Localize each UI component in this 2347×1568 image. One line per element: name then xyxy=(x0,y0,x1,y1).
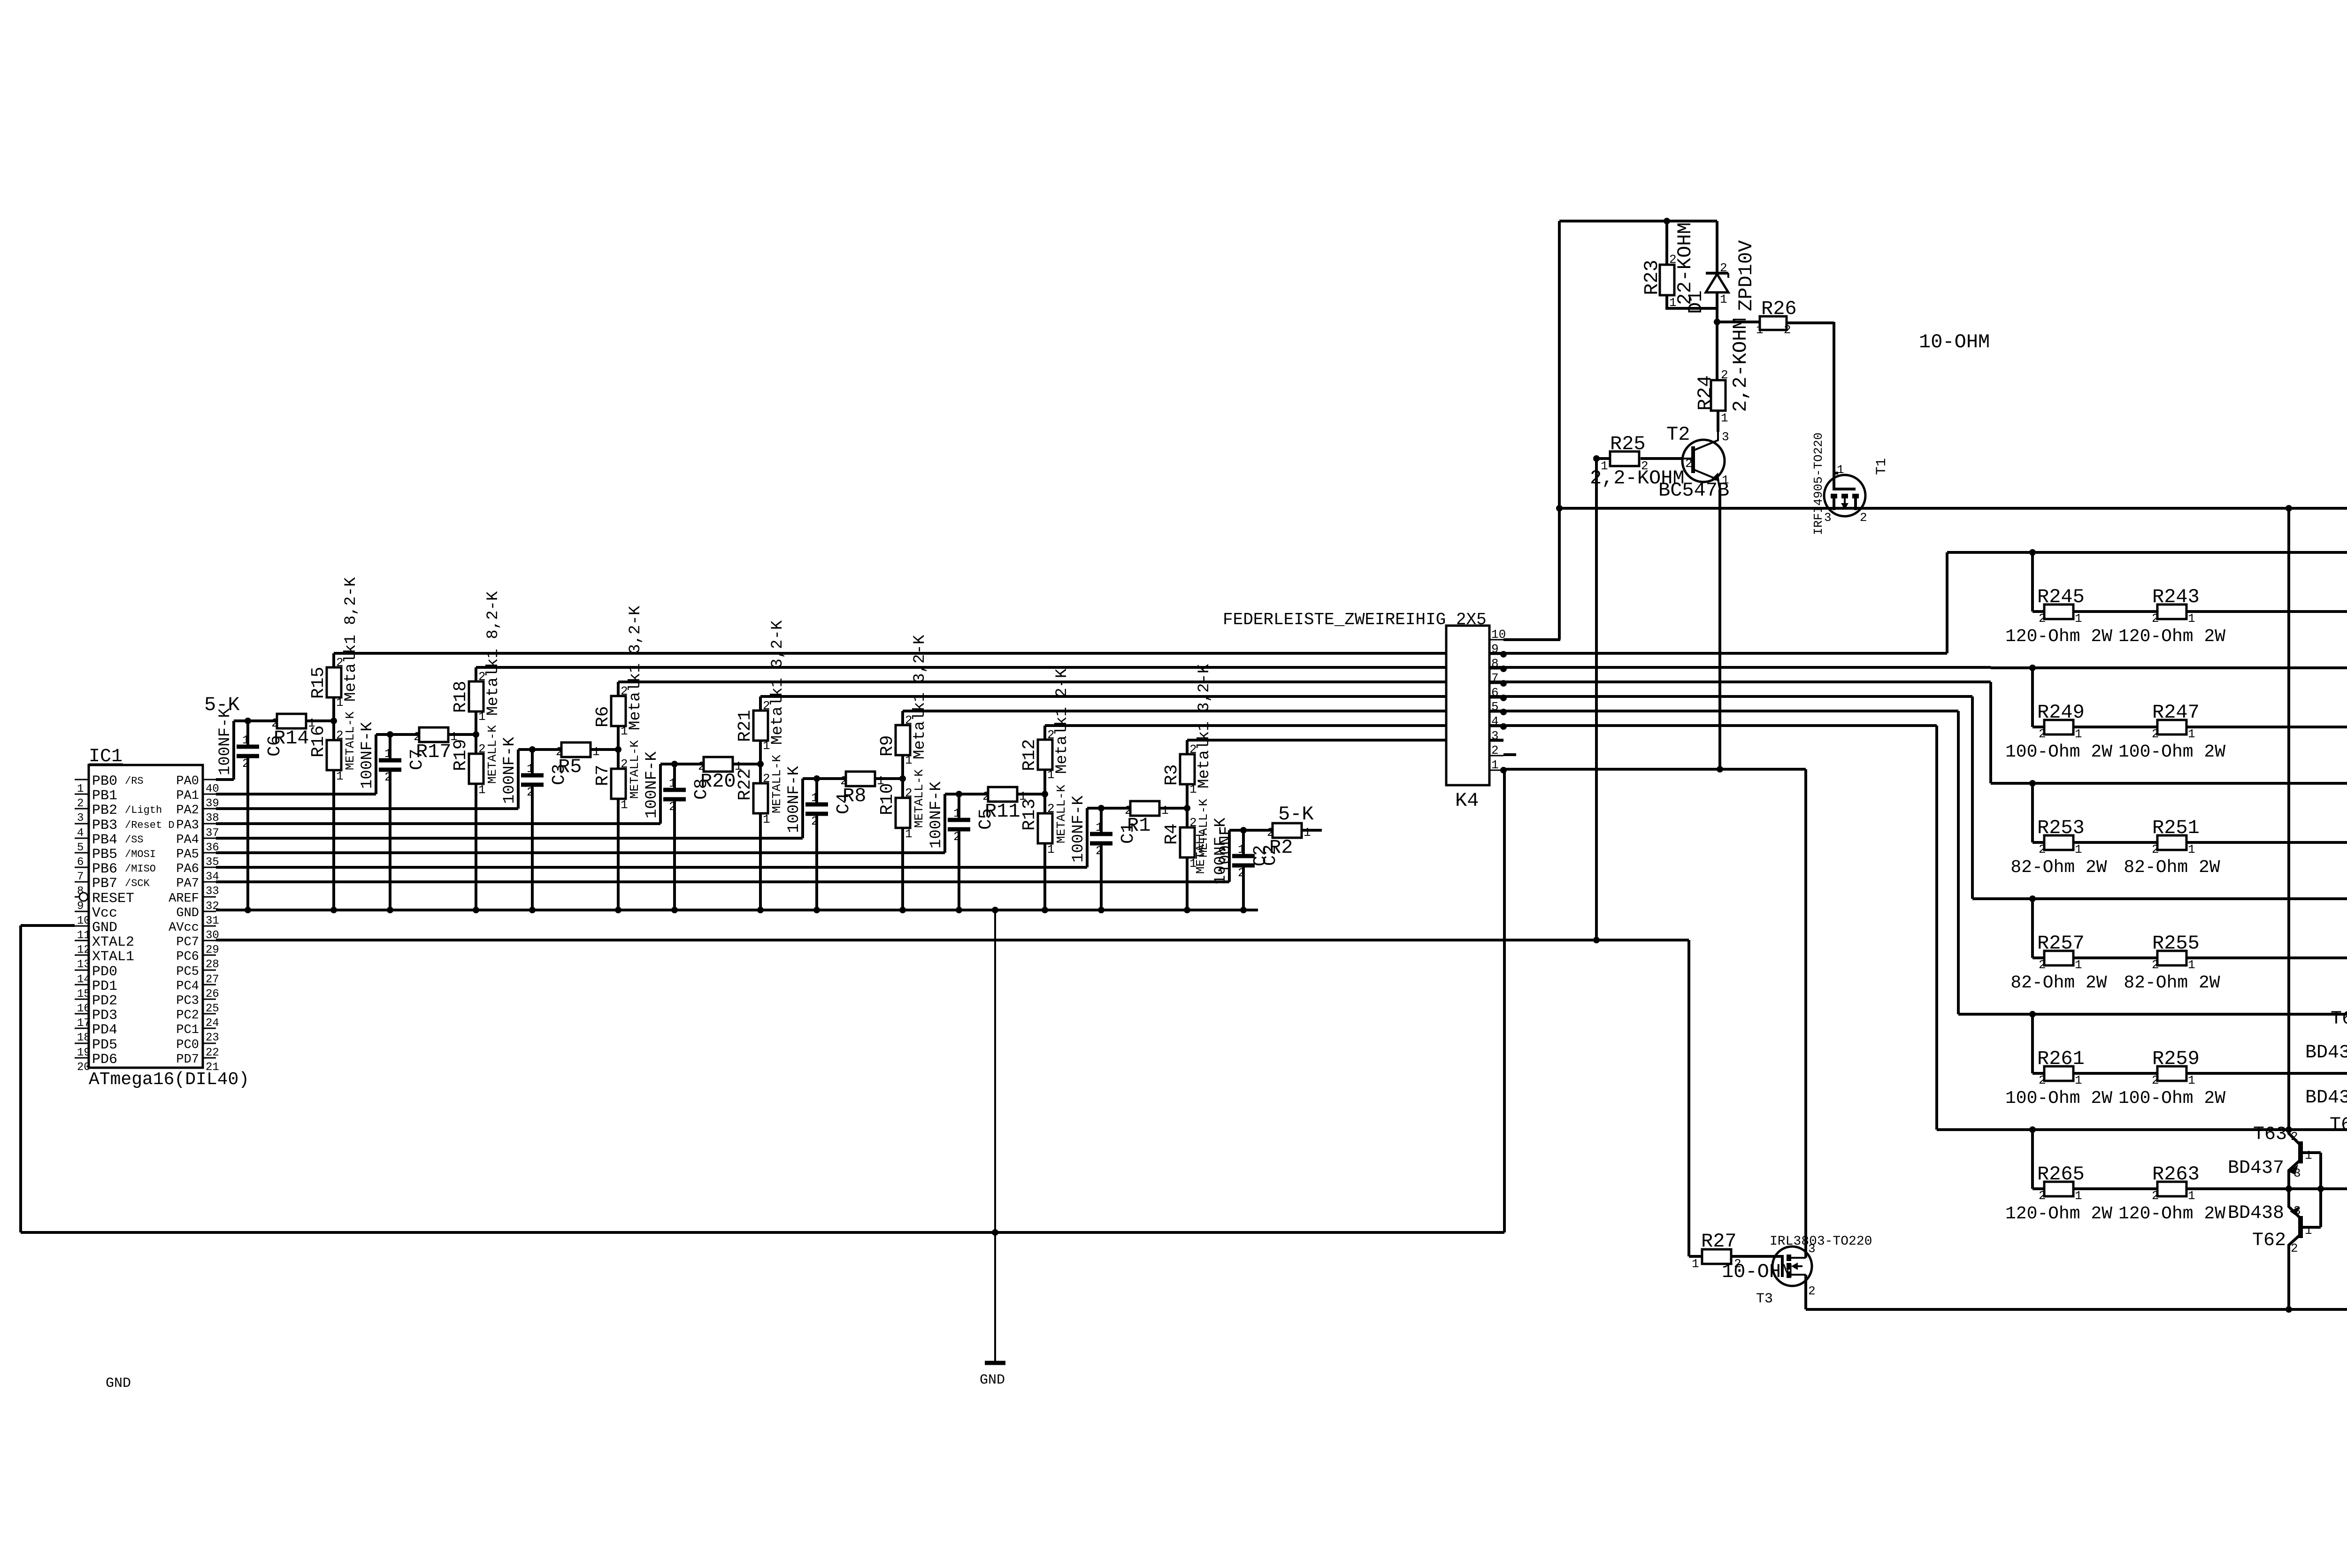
capacitor C2 xyxy=(1240,827,1247,834)
svg-text:Metalk1 3,2-K: Metalk1 3,2-K xyxy=(1196,664,1213,788)
wire K4 pin4 jog down to channel6 feedback xyxy=(1503,724,1937,727)
K4 pin 1 xyxy=(1489,770,1503,771)
svg-text:2: 2 xyxy=(2291,1241,2298,1255)
svg-text:R2: R2 xyxy=(1269,836,1293,859)
IC1 pin 18 PD4 xyxy=(75,1028,89,1029)
svg-text:100-Ohm 2W: 100-Ohm 2W xyxy=(2118,742,2225,762)
svg-text:2: 2 xyxy=(1096,844,1103,858)
bus wire stage 5 to K4 pin 4 xyxy=(1045,724,1503,727)
svg-text:13: 13 xyxy=(77,958,91,971)
svg-text:2: 2 xyxy=(2152,1073,2159,1087)
svg-text:100NF-K: 100NF-K xyxy=(359,722,376,789)
svg-text:1: 1 xyxy=(2305,1148,2312,1163)
svg-text:1: 1 xyxy=(1692,1257,1699,1271)
svg-text:2: 2 xyxy=(1189,816,1197,830)
capacitor C4 xyxy=(813,775,820,782)
IC1 pin 4 PB3 xyxy=(75,823,89,825)
IC1 pin 5 PB4 xyxy=(75,838,89,839)
svg-text:R5: R5 xyxy=(558,756,582,778)
svg-text:ATmega16(DIL40): ATmega16(DIL40) xyxy=(89,1070,249,1090)
svg-text:PD3: PD3 xyxy=(92,1008,117,1024)
svg-text:PC0: PC0 xyxy=(176,1038,199,1052)
output line channel 3 xyxy=(2033,841,2347,844)
svg-text:/Ligth: /Ligth xyxy=(125,804,162,816)
wire fb corner to power resistors channel 4 xyxy=(2031,899,2034,958)
svg-text:PA3: PA3 xyxy=(176,818,199,833)
svg-text:Metalk1 2-K: Metalk1 2-K xyxy=(1053,668,1071,774)
IC1 pin 15 PD1 xyxy=(75,984,89,986)
resistor R13 (lower) xyxy=(1043,794,1046,813)
svg-text:1: 1 xyxy=(2305,1224,2312,1238)
IC1 pin 12 XTAL2 xyxy=(75,940,89,941)
svg-text:2: 2 xyxy=(811,814,819,828)
svg-text:100-Ohm 2W: 100-Ohm 2W xyxy=(2005,742,2112,762)
svg-text:1: 1 xyxy=(2188,842,2195,857)
capacitor C8 xyxy=(671,761,678,767)
IC1 pin 10 Vcc xyxy=(75,911,89,912)
wire stage 6 junction xyxy=(1159,807,1187,810)
svg-text:PB2: PB2 xyxy=(92,803,117,818)
svg-text:R263: R263 xyxy=(2152,1163,2200,1186)
resistor R259 100-Ohm 2W xyxy=(2157,1066,2186,1081)
svg-text:2: 2 xyxy=(2152,958,2159,972)
wire column for channel 6 from bus down to pair T63 xyxy=(2287,508,2290,1130)
wire T2 supply rail top xyxy=(1559,220,1717,222)
wire K4 pin1 to GND trunk xyxy=(1503,769,1506,1232)
wire K4 pin1 GND line xyxy=(1503,768,1806,771)
IC1 pin 14 PD0 xyxy=(75,970,89,971)
capacitor C3 xyxy=(529,746,536,753)
IC1 pin 39 PA1 xyxy=(203,794,216,795)
IC1 pin 24 PC2 xyxy=(203,1013,216,1015)
wire PA3 from IC1 to stage 3 xyxy=(216,822,660,825)
svg-text:IRL3803-TO220: IRL3803-TO220 xyxy=(1770,1234,1872,1249)
wire left rail down to K4 pin10 xyxy=(1558,221,1561,640)
wire K4 pin9 jog up to channel1 feedback line xyxy=(1503,652,1947,655)
svg-text:1: 1 xyxy=(1721,411,1728,425)
svg-text:1: 1 xyxy=(336,769,344,783)
svg-text:5-K: 5-K xyxy=(204,694,240,716)
svg-text:Metalk1 8,2-K: Metalk1 8,2-K xyxy=(484,591,502,716)
capacitor C6 xyxy=(245,718,251,724)
svg-text:82-Ohm 2W: 82-Ohm 2W xyxy=(2010,857,2107,878)
wire PA5 from IC1 to stage 5 xyxy=(216,851,945,854)
svg-text:BD438: BD438 xyxy=(2228,1203,2284,1224)
svg-text:100-Ohm 2W: 100-Ohm 2W xyxy=(2005,1088,2112,1109)
resistor R5 xyxy=(561,742,591,757)
IC1 pin 31 GND xyxy=(203,911,216,912)
svg-text:METALL-K: METALL-K xyxy=(770,755,784,813)
resistor R7 (lower) xyxy=(617,750,620,769)
svg-text:/MISO: /MISO xyxy=(125,863,156,875)
svg-text:R16: R16 xyxy=(308,726,329,757)
svg-text:2: 2 xyxy=(905,786,913,800)
svg-text:T2: T2 xyxy=(1666,423,1690,446)
resistor R21 (upper) xyxy=(759,741,762,764)
resistor R257 82-Ohm 2W xyxy=(2044,951,2073,965)
svg-text:1: 1 xyxy=(2075,727,2082,741)
IC1 pin 34 PA6 xyxy=(203,867,216,868)
svg-text:Vcc: Vcc xyxy=(92,905,117,921)
wire PA1 from IC1 to stage 1 xyxy=(216,793,376,795)
svg-text:RESET: RESET xyxy=(92,891,134,907)
resistor R255 82-Ohm 2W xyxy=(2157,951,2186,965)
svg-text:2: 2 xyxy=(1721,368,1728,382)
svg-text:PC5: PC5 xyxy=(176,965,199,979)
svg-text:82-Ohm 2W: 82-Ohm 2W xyxy=(2124,857,2220,878)
IC1 pin 23 PC1 xyxy=(203,1028,216,1029)
svg-text:AREF: AREF xyxy=(169,892,199,906)
svg-text:3: 3 xyxy=(2293,1204,2301,1218)
svg-text:2: 2 xyxy=(1808,1284,1816,1298)
wire node stage 1 xyxy=(376,733,419,736)
IC1 pin 28 PC6 xyxy=(203,955,216,956)
wire fb corner to power resistors channel 2 xyxy=(2031,668,2034,727)
feedback line channel 3 xyxy=(1991,782,2347,785)
svg-text:BD437: BD437 xyxy=(2305,1042,2347,1063)
K4 pin 7 xyxy=(1489,683,1503,684)
svg-text:R243: R243 xyxy=(2152,586,2200,608)
wire PC7 jog down to R27 xyxy=(1687,940,1690,1256)
svg-text:2: 2 xyxy=(2152,612,2159,626)
IC1 pin 29 PC7 xyxy=(203,940,216,941)
svg-text:1: 1 xyxy=(2188,1189,2195,1203)
bus wire stage 2 to K4 pin 7 xyxy=(618,681,1503,683)
svg-text:21: 21 xyxy=(206,1061,219,1074)
svg-text:2: 2 xyxy=(336,728,344,742)
transistor T1 IRFI4905-T0220 p-channel MOSFET xyxy=(1824,475,1865,516)
resistor R15 (upper) xyxy=(332,697,335,721)
svg-text:R247: R247 xyxy=(2152,701,2200,724)
svg-text:2: 2 xyxy=(669,800,676,814)
IC1 pin 37 PA3 xyxy=(203,823,216,825)
svg-text:PD1: PD1 xyxy=(92,979,117,994)
svg-text:2,2-KOHM: 2,2-KOHM xyxy=(1729,317,1752,412)
svg-text:3: 3 xyxy=(77,812,84,825)
IC1 pin 21 PD7 xyxy=(203,1057,216,1059)
svg-text:PD4: PD4 xyxy=(92,1022,117,1038)
transistor T2 BC547B xyxy=(1682,440,1725,482)
resistor R263 120-Ohm 2W xyxy=(2157,1182,2186,1196)
resistor R261 100-Ohm 2W xyxy=(2044,1066,2073,1081)
svg-text:Metalk1 3,2-K: Metalk1 3,2-K xyxy=(769,620,787,745)
resistor R2 xyxy=(1273,823,1302,838)
svg-text:28: 28 xyxy=(206,958,219,971)
svg-text:Metalk1 3,2-K: Metalk1 3,2-K xyxy=(627,605,644,730)
K4 pin 9 xyxy=(1489,654,1503,655)
wire T3 drain up to K4 pin1 line xyxy=(1804,769,1807,1258)
svg-text:METALL-K: METALL-K xyxy=(628,740,642,799)
wire column below pair T62 down to bottom rail xyxy=(2287,1245,2290,1309)
svg-text:1: 1 xyxy=(1161,803,1169,818)
resistor R22 (lower) xyxy=(759,764,762,783)
svg-text:R261: R261 xyxy=(2037,1048,2085,1070)
wire stage 2 junction xyxy=(591,748,618,751)
svg-text:PB3: PB3 xyxy=(92,818,117,834)
svg-text:PD6: PD6 xyxy=(92,1052,117,1068)
wire PA0 from IC1 to stage 0 xyxy=(216,778,234,781)
resistor R6 (upper) xyxy=(617,726,620,750)
svg-text:R25: R25 xyxy=(1610,433,1646,455)
svg-text:2: 2 xyxy=(2152,1189,2159,1203)
transistor T3 IRL3803-TO220 n-channel MOSFET xyxy=(1772,1247,1812,1286)
svg-text:GND: GND xyxy=(92,920,117,936)
wire T3 source to bottom rail xyxy=(1804,1275,1807,1309)
bus wire stage 4 to K4 pin 5 xyxy=(903,710,1503,712)
svg-text:1: 1 xyxy=(2075,842,2082,857)
svg-text:R251: R251 xyxy=(2152,817,2200,839)
svg-text:100NF-K: 100NF-K xyxy=(501,737,519,804)
svg-text:R3: R3 xyxy=(1162,764,1182,786)
svg-text:100NF-K: 100NF-K xyxy=(643,751,661,818)
svg-text:R22: R22 xyxy=(735,769,755,801)
wire bases of T63/T62 xyxy=(2319,1153,2322,1227)
svg-text:BD437: BD437 xyxy=(2228,1158,2284,1179)
svg-text:2: 2 xyxy=(2039,1073,2046,1087)
IC1 pin 38 PA2 xyxy=(203,808,216,810)
output line channel 2 xyxy=(2033,726,2347,728)
svg-text:PD0: PD0 xyxy=(92,964,117,980)
transistor T62 BD438 pnp xyxy=(2286,1186,2292,1192)
wire K4 pin7 jog down to channel3 feedback xyxy=(1503,681,1991,683)
wire fb corner to power resistors channel 3 xyxy=(2031,783,2034,842)
svg-text:R7: R7 xyxy=(593,765,613,786)
svg-text:1: 1 xyxy=(384,747,392,761)
IC1 pin 27 PC5 xyxy=(203,970,216,971)
svg-text:R255: R255 xyxy=(2152,932,2200,955)
svg-text:PC1: PC1 xyxy=(176,1023,199,1037)
svg-text:METALL-K: METALL-K xyxy=(343,711,357,770)
svg-text:PC2: PC2 xyxy=(176,1009,199,1023)
svg-text:XTAL2: XTAL2 xyxy=(92,934,134,950)
IC IC1 ATmega16(DIL40) body xyxy=(89,765,203,1068)
wire fb corner to power resistors channel 1 xyxy=(2031,552,2034,612)
svg-text:Metalk1 3,2-K: Metalk1 3,2-K xyxy=(911,635,929,759)
svg-text:2: 2 xyxy=(2039,958,2046,972)
svg-text:100NF-K: 100NF-K xyxy=(785,766,803,833)
svg-text:2: 2 xyxy=(527,785,534,799)
svg-text:PA1: PA1 xyxy=(176,789,199,803)
svg-text:1: 1 xyxy=(1047,842,1055,857)
K4 pin 4 xyxy=(1489,726,1503,727)
svg-text:2,2-KOHM: 2,2-KOHM xyxy=(1590,467,1685,490)
svg-text:PC6: PC6 xyxy=(176,950,199,964)
wire node stage 6 xyxy=(1087,807,1130,810)
resistor R247 100-Ohm 2W xyxy=(2157,720,2186,734)
svg-text:/SCK: /SCK xyxy=(125,878,150,889)
wire stage 5 junction xyxy=(1017,793,1045,795)
svg-text:2: 2 xyxy=(2039,727,2046,741)
output line channel 6 xyxy=(2033,1187,2347,1190)
wire GND pin11 to trunk xyxy=(21,924,75,927)
svg-text:R20: R20 xyxy=(700,770,736,793)
IC1 pin 13 XTAL1 xyxy=(75,955,89,956)
wire K4 pin2 stub xyxy=(1503,753,1516,756)
K4 pin 10 xyxy=(1489,639,1503,641)
svg-text:R1: R1 xyxy=(1127,814,1150,837)
wire node stage 4 xyxy=(803,777,846,780)
resistor R19 (lower) xyxy=(475,734,477,754)
svg-text:R19: R19 xyxy=(451,739,471,771)
feedback line channel 6 xyxy=(1937,1128,2347,1131)
svg-text:R265: R265 xyxy=(2037,1163,2085,1186)
svg-text:/RS: /RS xyxy=(125,775,144,787)
resistor R27 10-OHM xyxy=(1689,1255,1702,1258)
wire PA7 from IC1 to stage 7 xyxy=(216,880,1229,883)
resistor R26 xyxy=(1717,321,1760,323)
svg-text:6: 6 xyxy=(1491,686,1499,700)
svg-text:1: 1 xyxy=(2075,1189,2082,1203)
bus wire stage 1 to K4 pin 8 xyxy=(476,666,1503,669)
svg-text:2: 2 xyxy=(1238,866,1245,880)
resistor R25 2,2-KOHM xyxy=(1641,457,1683,460)
svg-text:R259: R259 xyxy=(2152,1048,2200,1070)
K4 pin 6 xyxy=(1489,697,1503,699)
wire fb corner to power resistors channel 6 xyxy=(2031,1130,2034,1189)
svg-text:METALL-K: METALL-K xyxy=(485,725,499,784)
svg-text:1: 1 xyxy=(592,745,600,759)
svg-text:/MOSI: /MOSI xyxy=(125,849,156,860)
svg-text:R253: R253 xyxy=(2037,817,2085,839)
svg-text:GND: GND xyxy=(106,1376,131,1392)
svg-text:2: 2 xyxy=(2039,842,2046,857)
svg-text:10-OHM: 10-OHM xyxy=(1919,331,1990,353)
svg-text:Metalk1 8,2-K: Metalk1 8,2-K xyxy=(342,577,360,702)
svg-text:120-Ohm 2W: 120-Ohm 2W xyxy=(2118,1204,2225,1224)
feedback line channel 2 xyxy=(1991,666,2347,669)
svg-text:1: 1 xyxy=(1096,820,1103,834)
IC1 pin 40 PA0 xyxy=(203,779,216,780)
K4 pin 5 xyxy=(1489,711,1503,713)
zener diode D1 ZPD10V xyxy=(1716,221,1718,273)
svg-text:ZPD10V: ZPD10V xyxy=(1735,240,1757,311)
svg-text:23: 23 xyxy=(206,1032,219,1044)
wire R26 to T1 gate xyxy=(1833,322,1835,473)
resistor R1 xyxy=(1130,801,1159,816)
resistor R17 xyxy=(419,727,448,742)
wire stage 1 junction xyxy=(448,733,476,736)
svg-text:2: 2 xyxy=(478,742,486,756)
svg-text:R23: R23 xyxy=(1641,260,1663,295)
svg-text:18: 18 xyxy=(77,1032,91,1044)
resistor R243 120-Ohm 2W xyxy=(2157,604,2186,619)
svg-text:2: 2 xyxy=(2152,842,2159,857)
transistor T63 BD437 npn xyxy=(2286,1126,2292,1133)
svg-text:2: 2 xyxy=(1685,457,1693,471)
IC1 pin 11 GND xyxy=(75,926,89,927)
output line channel 1 xyxy=(2033,610,2347,613)
IC1 pin 3 PB2 xyxy=(75,808,89,810)
svg-text:PB0: PB0 xyxy=(92,773,117,789)
svg-text:/SS: /SS xyxy=(125,834,144,846)
svg-text:GND: GND xyxy=(176,906,199,920)
svg-text:R18: R18 xyxy=(451,681,471,713)
IC1 pin 8 PB7 xyxy=(75,881,89,883)
svg-text:METALL-K: METALL-K xyxy=(912,769,926,828)
wire bottom rail xyxy=(1806,1308,2347,1311)
svg-text:R14: R14 xyxy=(274,727,309,750)
svg-text:1: 1 xyxy=(763,812,770,826)
resistor R8 xyxy=(846,772,875,786)
svg-text:R13: R13 xyxy=(1020,799,1040,831)
svg-text:T61: T61 xyxy=(2331,1009,2347,1030)
svg-text:R10: R10 xyxy=(877,783,897,815)
resistor R14 xyxy=(277,714,306,728)
svg-text:T60: T60 xyxy=(2330,1115,2347,1136)
svg-text:2: 2 xyxy=(2291,1130,2298,1144)
svg-text:9: 9 xyxy=(1491,642,1499,656)
resistor R9 (upper) xyxy=(901,755,904,779)
svg-text:R17: R17 xyxy=(416,741,452,763)
wire node stage 7 xyxy=(1229,829,1273,832)
svg-text:3: 3 xyxy=(1722,430,1729,444)
svg-text:2: 2 xyxy=(2039,612,2046,626)
capacitor C7 xyxy=(387,731,393,738)
resistor R23 xyxy=(1665,221,1668,265)
wire stage 0 junction xyxy=(306,719,334,722)
wire stage 4 junction xyxy=(875,777,903,780)
wire fb corner to power resistors channel 5 xyxy=(2031,1014,2034,1073)
svg-text:T1: T1 xyxy=(1874,458,1890,475)
svg-text:1: 1 xyxy=(1238,842,1245,857)
svg-text:PC4: PC4 xyxy=(176,979,199,994)
IC1 pin 19 PD5 xyxy=(75,1043,89,1044)
svg-text:METALL-K: METALL-K xyxy=(1054,785,1068,843)
wire node stage 0 xyxy=(234,719,277,722)
svg-text:120-Ohm 2W: 120-Ohm 2W xyxy=(2005,627,2112,647)
wire PA6 from IC1 to stage 6 xyxy=(216,866,1087,869)
svg-text:33: 33 xyxy=(206,885,219,898)
capacitor C1 xyxy=(1098,805,1104,811)
wire node stage 2 xyxy=(518,748,561,751)
wire GND symbol drop xyxy=(994,909,996,1363)
svg-text:3: 3 xyxy=(2293,1166,2301,1180)
svg-text:2: 2 xyxy=(384,770,392,784)
svg-text:PA2: PA2 xyxy=(176,803,199,818)
wire R2 output stub xyxy=(1302,829,1322,832)
svg-text:PD2: PD2 xyxy=(92,993,117,1009)
svg-text:R24: R24 xyxy=(1694,375,1717,411)
capacitor C5 xyxy=(956,791,962,797)
svg-text:PB5: PB5 xyxy=(92,847,117,863)
output line channel 4 xyxy=(2033,956,2347,959)
svg-text:1: 1 xyxy=(242,733,250,747)
wire node stage 5 xyxy=(945,793,988,795)
svg-text:2: 2 xyxy=(953,830,961,844)
svg-text:1: 1 xyxy=(1722,473,1729,487)
IC1 pin 20 PD6 xyxy=(75,1057,89,1059)
svg-text:R26: R26 xyxy=(1761,298,1797,320)
svg-text:1: 1 xyxy=(1756,323,1764,337)
svg-text:1: 1 xyxy=(2075,1073,2082,1087)
resistor R10 (lower) xyxy=(901,779,904,798)
svg-text:BD438: BD438 xyxy=(2305,1087,2347,1109)
resistor R18 (upper) xyxy=(475,711,477,734)
resistor R4 (lower) xyxy=(1186,808,1189,827)
svg-text:2: 2 xyxy=(1491,743,1499,757)
svg-text:C2: C2 xyxy=(1250,845,1271,866)
svg-text:R15: R15 xyxy=(308,667,329,699)
resistor R20 xyxy=(704,757,733,772)
IC1 pin 17 PD3 xyxy=(75,1013,89,1015)
svg-text:1: 1 xyxy=(2188,1073,2195,1087)
svg-text:1: 1 xyxy=(953,806,961,820)
svg-text:PD7: PD7 xyxy=(176,1053,199,1067)
wire K4 pin6 jog down to channel4 feedback xyxy=(1503,695,1972,698)
wire PC7 up to R25 xyxy=(1595,459,1598,940)
wire GND trunk bottom xyxy=(21,1231,1504,1234)
svg-text:1: 1 xyxy=(1837,463,1844,477)
